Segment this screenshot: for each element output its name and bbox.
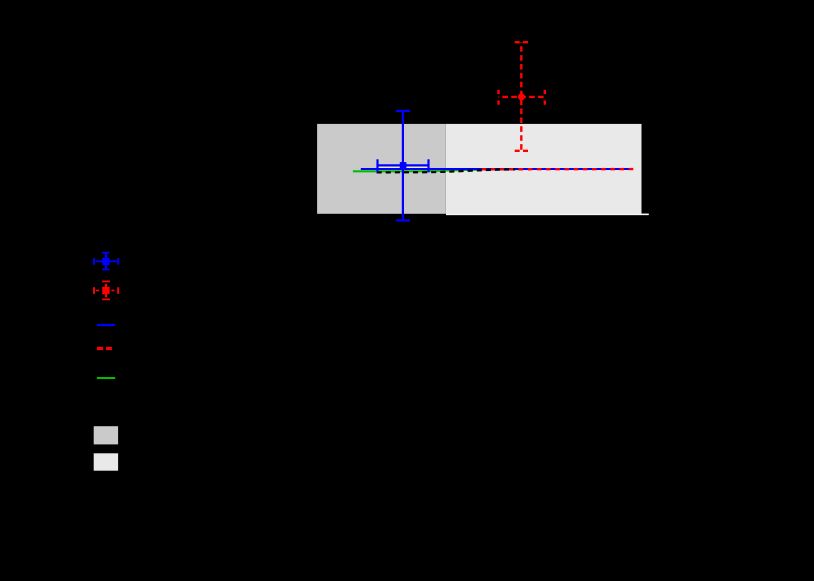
stat box (pale yellow) — [378, 166, 429, 168]
axis zero line (white, bottom) — [446, 214, 649, 216]
legend item 2: red dashed errorbar sample — [94, 281, 118, 299]
legend box dark gray — [94, 426, 118, 444]
legend item 5: green line sample — [97, 377, 115, 379]
data point 2 (red dashed errorbar) — [499, 42, 545, 151]
legend item 3: blue line sample — [97, 324, 115, 326]
band sigma1 (dark gray, left) — [317, 124, 446, 214]
curve green solid — [353, 169, 520, 171]
data point 1 (blue errorbar) — [378, 111, 429, 220]
legend item 4: red dashed line sample — [97, 347, 112, 350]
curve red dashed — [482, 168, 634, 171]
curve black dashed — [377, 169, 515, 172]
marker square blue — [400, 162, 407, 169]
legend box light gray — [94, 453, 118, 470]
band sigma2 (light gray, right) — [446, 124, 642, 214]
legend item 1: blue errorbar sample — [94, 253, 118, 271]
marker circle red — [518, 93, 525, 100]
curve blue solid — [361, 168, 633, 170]
